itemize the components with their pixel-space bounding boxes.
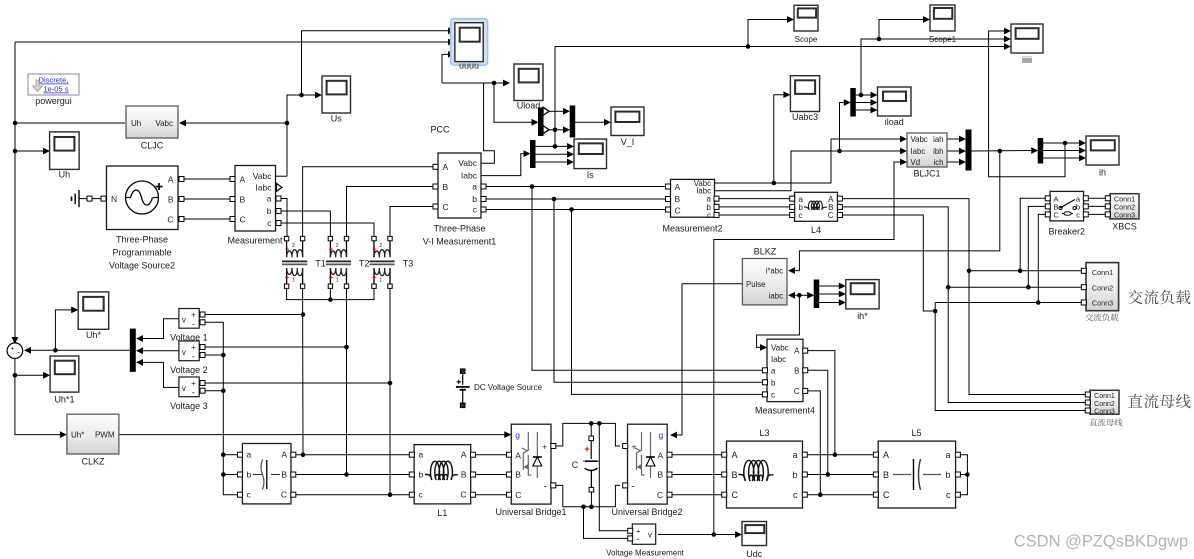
- port c filter: [238, 492, 243, 497]
- powergui block: [28, 74, 79, 95]
- port b L4: [790, 204, 795, 209]
- svg-text:powergui: powergui: [35, 96, 72, 106]
- arrow into V_I scope: [604, 119, 611, 126]
- wire Voltage3 + to T3 secondary: [203, 382, 390, 384]
- svg-text:CLJC: CLJC: [141, 141, 164, 151]
- svg-text:-: -: [544, 482, 547, 493]
- svg-text:iabc: iabc: [769, 291, 783, 300]
- wire Uh output net vertical from CLJC to sum: [14, 42, 16, 344]
- svg-text:DC Voltage Source: DC Voltage Source: [474, 383, 543, 392]
- svg-text:Measurement4: Measurement4: [755, 406, 815, 416]
- mux for V_I: [570, 106, 575, 137]
- arrow into iiiii input 3: [1004, 43, 1011, 50]
- wire up to Scope1 line: [861, 39, 1006, 95]
- arrow into Bridge1 g: [504, 431, 511, 438]
- node junction phase a: [301, 452, 306, 457]
- scope Uh* scope: [78, 292, 109, 329]
- wire Breaker2 c to XBCS Conn3: [1086, 213, 1108, 215]
- wire BLKZ Pulse to Bridge2 g: [674, 284, 742, 435]
- svg-text:B: B: [281, 470, 287, 480]
- port C L3: [722, 492, 727, 497]
- port + bridge2: [623, 444, 628, 449]
- wire ih branch to iiiii input 1: [989, 31, 1065, 177]
- wire CLKZ PWM to Bridge1 g: [119, 434, 506, 436]
- arrow into iload input 3: [871, 107, 878, 114]
- wire BLJC1 ich to mux: [947, 161, 961, 163]
- svg-text:A: A: [443, 162, 449, 172]
- node junction iload branch: [837, 149, 842, 154]
- scope Uh scope: [50, 132, 80, 170]
- svg-text:V_I: V_I: [621, 137, 635, 147]
- svg-text:Voltage 2: Voltage 2: [170, 365, 208, 375]
- scope V_I scope: [611, 107, 644, 136]
- output chevron Measurement Iabc: [277, 184, 283, 192]
- node junction Scope branch: [746, 44, 751, 49]
- port - Voltage3: [200, 388, 205, 393]
- port c L1: [409, 492, 414, 497]
- node junction Uh*1 branch: [13, 373, 18, 378]
- port C Meas2: [666, 207, 671, 212]
- svg-text:Uh*: Uh*: [71, 431, 84, 440]
- node junction cap C top: [589, 421, 594, 426]
- svg-text:c: c: [793, 490, 798, 500]
- port C L1: [471, 492, 476, 497]
- wire iload demux out2: [855, 102, 872, 104]
- svg-text:ih: ih: [1099, 168, 1106, 178]
- arrow into BLJC1 Iabc: [900, 148, 907, 155]
- wire Is demux out2: [535, 153, 569, 155]
- arrow into Scope: [787, 16, 794, 23]
- wire up to Scope: [748, 20, 789, 47]
- arrow into Uload scope: [503, 80, 510, 87]
- wire transformer secondary bus: [287, 289, 374, 300]
- svg-text:g: g: [515, 430, 520, 440]
- svg-text:A: A: [794, 347, 800, 356]
- port b filter: [238, 472, 243, 477]
- demux for ih*: [814, 280, 819, 308]
- subsystem XBCS: [1110, 194, 1139, 219]
- node junction Uh-CLJC: [13, 121, 18, 126]
- svg-text:C: C: [828, 211, 834, 220]
- wire to Voltage Measurement +: [599, 423, 630, 530]
- wire iabc net junction: [797, 293, 802, 298]
- arrow into Uh*1: [43, 372, 50, 379]
- svg-text:+: +: [285, 244, 290, 253]
- scope Scope1 scope: [930, 5, 955, 31]
- node junction L5 short: [965, 472, 970, 477]
- svg-text:C: C: [883, 490, 890, 500]
- svg-text:Vabc: Vabc: [911, 135, 928, 144]
- port c L3: [802, 492, 807, 497]
- wire L5 outputs short: [958, 455, 967, 495]
- arrow into ih* demux: [807, 292, 814, 299]
- arrow into iload input 1: [871, 92, 878, 99]
- port B L5: [873, 472, 878, 477]
- port + Voltage3: [200, 381, 205, 386]
- wire Bridge2 A to L3 A: [670, 454, 724, 456]
- wire Vabc up to uuuu input 1: [302, 31, 450, 95]
- port + Voltage1: [200, 312, 205, 317]
- port A bridge2: [667, 452, 672, 457]
- port c Breaker2: [1083, 212, 1088, 217]
- port a filter: [238, 452, 243, 457]
- subsystem Measurement2: [671, 179, 715, 217]
- arrow into iiiii input 1: [1004, 28, 1011, 35]
- svg-text:b: b: [771, 378, 776, 387]
- svg-text:C: C: [572, 460, 579, 470]
- arrow into BLJC mux 1: [959, 136, 966, 143]
- demux for ih: [1038, 139, 1043, 164]
- svg-text:A: A: [168, 175, 174, 185]
- svg-text:Iabc: Iabc: [771, 355, 786, 364]
- arrow into mux1 input 1: [563, 108, 570, 115]
- wire up to Breaker2 C: [1038, 214, 1047, 302]
- wire filter A to L1 a: [296, 454, 411, 456]
- wire mux to sum: [28, 349, 130, 351]
- svg-text:a: a: [771, 366, 776, 375]
- svg-text:c: c: [771, 390, 775, 399]
- node junction Udc-Vd: [712, 532, 717, 537]
- node junction L3c: [818, 492, 823, 497]
- arrow into Is demux: [524, 150, 531, 157]
- label DC bus chinese: [1128, 394, 1142, 408]
- node junction rail-a: [221, 452, 226, 457]
- port C Meas4: [803, 388, 808, 393]
- svg-text:b: b: [792, 470, 797, 480]
- svg-text:PCC: PCC: [430, 125, 450, 135]
- arrow into uuuu input 2: [448, 39, 455, 46]
- port Conn3 XBCS: [1105, 212, 1110, 217]
- wire T3 primary to V-I C: [390, 207, 433, 237]
- port A Breaker2: [1045, 196, 1050, 201]
- wire Measurement2 b to L4 b: [718, 206, 792, 208]
- svg-text:B: B: [658, 470, 664, 480]
- arrow into ih* input 2: [839, 291, 846, 298]
- arrow into BLJC1 Vd: [900, 159, 907, 166]
- svg-text:iah: iah: [933, 135, 943, 144]
- demux for Is: [531, 141, 536, 168]
- wire Measurement a to T1: [281, 199, 287, 237]
- wire up to Breaker2 B: [1028, 206, 1047, 287]
- arrow into BLJC mux 2: [959, 148, 966, 155]
- subsystem Measurement: [235, 166, 276, 232]
- port A L1: [471, 452, 476, 457]
- node junction Breaker C branch: [1036, 300, 1041, 305]
- port A filter: [291, 452, 296, 457]
- wire L3 a to L5 A: [805, 454, 876, 456]
- port A bridge1: [507, 452, 512, 457]
- port Conn3 DC bus: [1085, 408, 1090, 413]
- svg-text:Three-Phase: Three-Phase: [116, 235, 168, 245]
- wire rail to filter a: [223, 454, 238, 456]
- arrow into ih input 1: [1079, 140, 1086, 147]
- svg-text:Uh*: Uh*: [86, 330, 102, 340]
- port Conn2 XBCS: [1105, 204, 1110, 209]
- svg-text:C: C: [675, 205, 681, 215]
- arrow into BLJC1 Vabc: [900, 136, 907, 143]
- wire Measurement2 c to L4 c: [718, 214, 792, 216]
- svg-text:B: B: [515, 470, 521, 480]
- wire T1 secondary right down: [302, 289, 304, 455]
- voltage measurement Voltage 3: [179, 377, 199, 397]
- svg-text:V-I Measurement1: V-I Measurement1: [423, 237, 497, 247]
- svg-text:Conn2: Conn2: [1094, 401, 1115, 408]
- port B V-I: [433, 184, 438, 189]
- port A Meas4: [803, 348, 808, 353]
- subsystem BLJC1: [907, 133, 947, 167]
- voltage measurement Voltage 1: [179, 309, 199, 329]
- arrow into ih input 2: [1079, 147, 1086, 154]
- wire T2 secondary right down: [346, 289, 348, 475]
- svg-text:Voltage Source2: Voltage Source2: [109, 261, 175, 271]
- arrow into Us scope: [315, 92, 322, 99]
- port A Measurement: [230, 177, 235, 182]
- svg-text:A: A: [883, 450, 889, 460]
- wire BLJC1 iah to mux: [947, 138, 961, 140]
- selection highlight uuuu: [451, 19, 488, 66]
- svg-text:L4: L4: [811, 225, 821, 235]
- wire filter C to L1 c: [296, 494, 411, 496]
- node junction b branch: [552, 197, 557, 202]
- svg-text:a: a: [267, 194, 272, 204]
- node junction Vabc-CLJC: [285, 121, 290, 126]
- node junction on demux1 out2: [553, 128, 558, 133]
- svg-text:b: b: [419, 470, 424, 480]
- mux after BLJC1: [966, 130, 971, 170]
- svg-text:v: v: [182, 384, 186, 393]
- wire ih* demux out3: [818, 302, 840, 304]
- svg-text:+: +: [632, 442, 637, 452]
- arrow into ih* input 1: [839, 283, 846, 290]
- wire L1 B to Bridge1 B: [475, 474, 507, 476]
- node junction AC load Conn1: [967, 269, 972, 274]
- svg-text:ih*: ih*: [857, 311, 868, 321]
- node junction Uload branch: [492, 81, 497, 86]
- wire to ih* demux: [799, 294, 809, 296]
- wire L5 b short: [958, 474, 967, 476]
- node junction iload out1: [859, 93, 864, 98]
- node junction on Is wire: [553, 144, 558, 149]
- arrow into BLKZ iabc (left): [788, 292, 795, 299]
- wire source B to Measurement B: [184, 198, 230, 200]
- wire long to iiiii input 3: [555, 46, 1006, 48]
- wire to Uh scope: [15, 150, 45, 152]
- arrow into Is input 3: [567, 159, 574, 166]
- wire ih demux out1: [1043, 142, 1082, 144]
- wire into BLKZ iabc: [792, 294, 799, 296]
- wire Vm output to Udc: [658, 534, 737, 536]
- node junction c branch: [569, 207, 574, 212]
- port C V-I: [433, 204, 438, 209]
- node junction Breaker B branch: [1026, 285, 1031, 290]
- arrow into ih input 3: [1079, 155, 1086, 162]
- wire up to Uh* scope: [55, 310, 73, 350]
- arrow into Uh*: [71, 307, 78, 314]
- svg-text:B: B: [883, 470, 889, 480]
- svg-text:b: b: [247, 470, 252, 480]
- voltage measurement block: [632, 524, 655, 544]
- wire T1 primary to V-I A: [303, 167, 433, 236]
- wire Voltage minus common rail: [203, 322, 238, 494]
- arrow into iload demux: [844, 99, 851, 106]
- wire ih demux out2: [1043, 150, 1082, 152]
- svg-text:Universal Bridge1: Universal Bridge1: [495, 507, 566, 517]
- wire to Uh*1 scope: [15, 374, 45, 376]
- arrow into mux1 input 2: [563, 126, 570, 133]
- wire to Voltage Measurement -: [584, 507, 631, 539]
- svg-text:b: b: [472, 194, 477, 204]
- arrow into sum-mux 1 (left): [136, 335, 143, 342]
- port c V-I: [481, 207, 486, 212]
- wire Bridge2 B to L3 B: [670, 474, 724, 476]
- sum block: [7, 343, 23, 359]
- svg-text:v: v: [182, 348, 186, 357]
- svg-text:C: C: [460, 490, 466, 500]
- bus selector chevrons: [543, 107, 549, 115]
- wire L3 b to L5 B: [805, 474, 876, 476]
- wire Measurement c to T3: [281, 223, 374, 236]
- port b L1: [409, 472, 414, 477]
- node junction V3-: [221, 388, 226, 393]
- scope Uabc3 scope: [790, 76, 819, 112]
- node junction i*abc branch: [998, 149, 1003, 154]
- port Conn2 AC load: [1081, 285, 1086, 290]
- wire Measurement Vabc output: [276, 175, 287, 177]
- voltage measurement Voltage 2: [179, 341, 199, 361]
- port c Meas2: [714, 213, 719, 218]
- wire BLJC1 ibh to mux: [947, 150, 961, 152]
- wire L1 A to Bridge1 A: [475, 454, 507, 456]
- node junction a branch: [530, 184, 535, 189]
- arrow into demux1: [532, 119, 539, 126]
- port b Meas4: [763, 380, 768, 385]
- svg-text:1: 1: [379, 278, 382, 284]
- wire up to Uabc3: [774, 95, 785, 183]
- svg-text:Vabc: Vabc: [155, 119, 173, 128]
- port Conn1 DC bus: [1085, 392, 1090, 397]
- wire Bridge2 C to L3 C: [670, 494, 724, 496]
- port Conn2 DC bus: [1085, 400, 1090, 405]
- scope Us scope: [322, 76, 351, 113]
- svg-text:Conn2: Conn2: [1092, 284, 1113, 293]
- arrow into Uh scope: [43, 148, 50, 155]
- port B L1: [471, 472, 476, 477]
- port C bridge1: [507, 492, 512, 497]
- wire mux1 to V_I scope: [575, 121, 607, 123]
- port - VoltMeas: [628, 536, 633, 541]
- arrow into BLKZ i*abc (left): [788, 267, 795, 274]
- scope Is scope: [574, 139, 607, 169]
- svg-text:Vd: Vd: [911, 158, 921, 167]
- wire source C to Measurement C: [184, 218, 230, 220]
- port c Measurement: [276, 221, 281, 226]
- wire T2 primary to V-I B: [347, 187, 434, 237]
- three-phase capacitor filter block: [242, 444, 291, 504]
- svg-text:A: A: [281, 450, 287, 460]
- port a Meas4: [763, 368, 768, 373]
- wire ih* demux out2: [818, 293, 840, 295]
- svg-text:A: A: [515, 451, 521, 461]
- wire a down to Measurement4: [532, 187, 763, 371]
- wire filter B to L1 b: [296, 474, 411, 476]
- wire V-I Vabc output zigzag up: [481, 83, 494, 163]
- wire into CLJC Vabc: [182, 122, 287, 124]
- port C source: [179, 217, 184, 222]
- svg-text:T1: T1: [315, 259, 326, 269]
- svg-text:T3: T3: [403, 259, 414, 269]
- arrow into Scope1: [923, 16, 930, 23]
- arrow into sum (left): [24, 347, 31, 354]
- inductor block L4: [795, 192, 838, 221]
- port Conn1 AC load: [1081, 268, 1086, 273]
- svg-text:+: +: [329, 244, 334, 253]
- arrow into sum-mux 2 (left): [136, 347, 143, 354]
- port - bridge2: [623, 483, 628, 488]
- svg-text:N: N: [111, 194, 117, 204]
- arrow into iiiii input 2: [1004, 36, 1011, 43]
- port a L3: [802, 452, 807, 457]
- svg-text:Uh*1: Uh*1: [54, 395, 74, 405]
- port b Measurement: [276, 209, 281, 214]
- svg-text:A: A: [240, 175, 246, 185]
- node junction V3+: [388, 381, 393, 386]
- wire Conn3 vertical to DC bus: [935, 303, 1087, 411]
- wire up to Scope1: [879, 20, 925, 40]
- wire V-I b to Measurement2 B: [486, 198, 665, 200]
- svg-text:Voltage Measurement: Voltage Measurement: [606, 549, 685, 558]
- wire Breaker2 b to XBCS Conn2: [1086, 205, 1108, 207]
- svg-text:T2: T2: [359, 259, 370, 269]
- port a Meas2: [714, 196, 719, 201]
- svg-text:2: 2: [379, 243, 382, 249]
- scope Udc scope: [742, 522, 767, 546]
- port B Meas4: [803, 368, 808, 373]
- svg-text:+: +: [372, 244, 377, 253]
- wire AC load Conn3 feed: [935, 302, 1083, 304]
- wire Measurement2 a to L4 a: [718, 198, 792, 200]
- svg-text:-: -: [192, 319, 195, 329]
- subsystem DC bus (zhiliu muxian): [1090, 390, 1119, 414]
- inductor block L1: [414, 445, 471, 504]
- wire DC rail bottom: [554, 485, 621, 506]
- port A L4: [837, 196, 842, 201]
- node junction V1+: [301, 312, 306, 317]
- wire up to Breaker2 A: [1020, 198, 1047, 270]
- svg-text:Is: Is: [587, 170, 595, 180]
- svg-text:-: -: [17, 348, 20, 357]
- port C L5: [873, 492, 878, 497]
- wire L4 C down: [840, 215, 935, 311]
- node junction V2+: [344, 345, 349, 350]
- ground symbol: [71, 197, 73, 202]
- port square ground: [87, 196, 92, 201]
- node junction rail-b: [221, 472, 226, 477]
- svg-text:C: C: [443, 202, 449, 212]
- wire rail to filter b: [223, 474, 238, 476]
- svg-text:ibh: ibh: [933, 147, 943, 156]
- scope Uload scope: [514, 64, 543, 101]
- arrow into CLKZ: [60, 431, 67, 438]
- wire Voltage3 minus: [203, 390, 223, 392]
- port c L5: [955, 492, 960, 497]
- svg-text:a: a: [792, 450, 797, 460]
- svg-text:v: v: [182, 316, 186, 325]
- arrow into uuuu input 1: [448, 27, 455, 34]
- wire Voltage2 v to mux: [140, 350, 179, 352]
- node junction Scope1 branch: [877, 37, 882, 42]
- node junction phase c: [388, 492, 393, 497]
- svg-text:+: +: [10, 345, 14, 352]
